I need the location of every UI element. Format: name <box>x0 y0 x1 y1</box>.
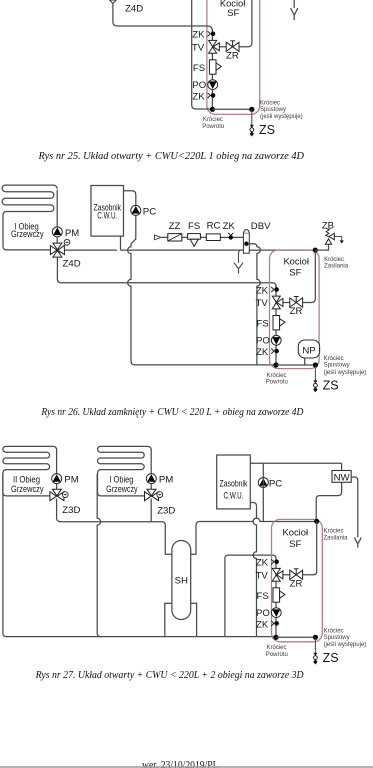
overflow arrow (cut at top) <box>291 0 298 20</box>
svg-text:C.W.U.: C.W.U. <box>224 490 244 501</box>
wire return collector riser <box>225 555 276 637</box>
cold water feed line <box>162 236 243 238</box>
svg-text:Rys nr 25. Układ otwarty + CWU: Rys nr 25. Układ otwarty + CWU<220L 1 ob… <box>38 151 305 162</box>
wire tank top line to NW <box>250 462 341 464</box>
svg-text:RC: RC <box>207 220 221 231</box>
svg-text:C.W.U.: C.W.U. <box>97 210 117 221</box>
boiler protection column (rys 26) <box>256 285 367 392</box>
pump PM <box>52 227 62 237</box>
svg-text:Kocioł: Kocioł <box>283 256 309 267</box>
wire NW overflow <box>351 477 361 548</box>
svg-text:Rys nr 26. Układ zamknięty + C: Rys nr 26. Układ zamknięty + CWU < 220 L… <box>41 407 304 418</box>
svg-text:PC: PC <box>143 206 156 217</box>
svg-text:Króciec: Króciec <box>324 257 344 263</box>
boiler body rys 27 (red outline) <box>272 519 323 641</box>
expansion vessel NP <box>298 340 319 358</box>
svg-text:Grzewczy: Grzewczy <box>11 229 44 240</box>
svg-text:NW: NW <box>334 473 351 484</box>
valve Z4D bottom tip (cut at page top) <box>110 0 117 3</box>
wire DBV outlet down to return <box>249 244 260 365</box>
pump PM (I) <box>146 474 156 484</box>
heating circuit coil I Obieg Grzewczy <box>97 446 151 496</box>
reducer RC <box>206 234 220 241</box>
svg-text:ZZ: ZZ <box>169 221 181 232</box>
wire Z4D bottom port to column <box>57 257 276 289</box>
boiler body rys 26 (red outline) <box>270 250 320 369</box>
check valve ZK (cw line) <box>228 233 233 240</box>
wire tank bottom jog down <box>250 503 256 637</box>
wire tank top to PC and down to return <box>124 191 277 365</box>
svg-text:Króciec: Króciec <box>324 529 344 535</box>
pump PC <box>131 205 141 215</box>
actuator of Z3D (I) <box>157 492 163 498</box>
vessel NW <box>332 471 351 483</box>
inlet arrow <box>154 235 161 240</box>
safety valve ZB <box>325 229 344 245</box>
wire NW loop <box>316 463 341 521</box>
separator SH <box>172 541 191 620</box>
svg-text:FS: FS <box>188 221 200 232</box>
wire supply riser from ZR up into boiler <box>239 0 252 47</box>
actuator of Z3D (II) <box>62 492 68 498</box>
svg-text:Zasilania: Zasilania <box>324 535 349 541</box>
svg-text:Z3D: Z3D <box>157 506 175 517</box>
wire SH lower left <box>165 603 172 636</box>
svg-text:Grzewczy: Grzewczy <box>11 484 44 495</box>
wire I circuit return drop <box>97 474 100 637</box>
heating circuit coil + box (I Obieg Grzewczy) <box>2 185 57 250</box>
svg-text:PM: PM <box>64 475 78 486</box>
boiler protection column (rys 27) <box>256 558 367 665</box>
valve DBV <box>243 230 249 254</box>
svg-text:Zasobnik: Zasobnik <box>220 478 248 489</box>
svg-text:Kocioł: Kocioł <box>283 528 309 539</box>
tank Zasobnik C.W.U. <box>91 186 124 237</box>
svg-text:Grzewczy: Grzewczy <box>106 484 138 495</box>
wire return line entering boiler <box>192 0 213 109</box>
boiler protection column (rys 25) <box>192 30 303 137</box>
svg-text:PC: PC <box>269 479 282 490</box>
wire supply dot to ZB <box>315 244 328 250</box>
svg-text:SF: SF <box>227 8 239 19</box>
svg-text:NP: NP <box>302 345 315 356</box>
node supply port <box>313 248 318 253</box>
svg-text:ZK: ZK <box>223 221 236 232</box>
wire from Z4D to column top <box>113 3 212 34</box>
valve Z4D (4-way) <box>50 243 64 257</box>
svg-text:PM: PM <box>159 475 173 486</box>
wire PC drop <box>262 463 264 521</box>
actuator of Z4D <box>64 239 70 245</box>
pump PM (II) <box>52 474 62 484</box>
svg-text:DBV: DBV <box>251 221 271 232</box>
pump PC (rys 27) <box>258 478 268 488</box>
svg-text:Z4D: Z4D <box>63 259 81 270</box>
valve ZZ <box>168 234 182 241</box>
wire Z3D I drop to trunk <box>150 499 152 522</box>
wire tank bottom to supply line <box>120 236 122 250</box>
filter FS (cw line) <box>188 234 201 247</box>
svg-text:Zasilania: Zasilania <box>324 264 349 270</box>
svg-text:Rys nr 27. Układ otwarty + CWU: Rys nr 27. Układ otwarty + CWU < 220L + … <box>35 670 304 681</box>
svg-text:ZB: ZB <box>322 220 334 231</box>
wire II circuit return drop <box>3 474 276 637</box>
wire NP stub <box>304 358 306 365</box>
wire ZR to supply riser (rys 27) <box>303 521 317 575</box>
svg-text:SF: SF <box>289 539 301 550</box>
svg-text:Z4D: Z4D <box>125 4 143 15</box>
valve Z3D (II) <box>50 489 64 501</box>
svg-text:PM: PM <box>65 228 79 239</box>
wire supply line Z4D to boiler <box>65 249 316 251</box>
node supply port (rys 27) <box>314 519 319 524</box>
heating circuit coil II Obieg Grzewczy <box>3 446 57 496</box>
svg-text:SF: SF <box>289 268 301 279</box>
DBV discharge arrow <box>234 250 243 273</box>
wire ZR to supply riser <box>303 250 316 302</box>
wire SH upper right to supply <box>191 518 317 554</box>
wire Z3D II down and trunk to SH <box>57 499 172 555</box>
tank Zasobnik C.W.U. (rys 27) <box>217 455 251 509</box>
footer page edge line <box>0 766 373 768</box>
wire radiator supply drop <box>56 190 58 244</box>
svg-text:SH: SH <box>175 576 188 587</box>
wire II radiator drop <box>56 449 58 491</box>
wire I radiator drop <box>150 449 152 491</box>
svg-text:Z3D: Z3D <box>62 505 80 516</box>
wire SH lower right <box>191 603 197 636</box>
boiler body (red outline, top cut off) <box>207 0 260 114</box>
valve Z3D (I) <box>145 489 159 501</box>
